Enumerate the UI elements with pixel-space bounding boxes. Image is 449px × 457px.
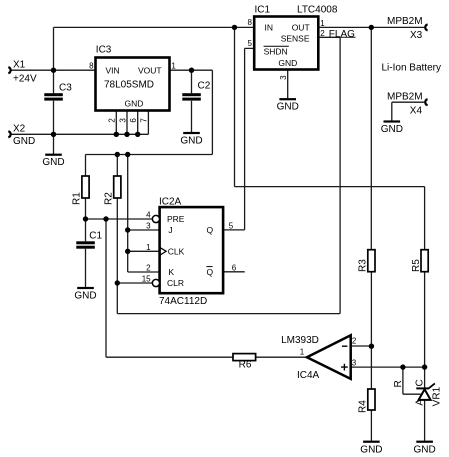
svg-text:IN: IN: [265, 23, 274, 33]
svg-text:IC2A: IC2A: [159, 197, 182, 208]
svg-text:GND: GND: [277, 102, 299, 113]
svg-text:R6: R6: [239, 360, 252, 371]
ground VR1: [414, 441, 436, 456]
shunt regulator VR1: [393, 379, 443, 406]
node R1/C1/PRE: [83, 216, 88, 221]
connector X2: [8, 131, 10, 137]
svg-text:1: 1: [300, 347, 305, 356]
connector X4: [425, 99, 427, 105]
svg-text:R4: R4: [358, 400, 369, 413]
capacitor C1: [76, 231, 102, 249]
wire IC3 bottom pins 2 3 6 7: [116, 111, 148, 135]
svg-text:C: C: [414, 379, 425, 386]
IC3 voltage regulator box: [89, 45, 176, 123]
svg-text:GND: GND: [74, 291, 96, 302]
svg-text:5: 5: [248, 39, 253, 48]
node PRE/R6 branch: [103, 216, 108, 221]
svg-text:GND: GND: [180, 136, 202, 147]
wire Qbar stub: [223, 271, 245, 273]
capacitor C2: [182, 81, 210, 101]
svg-text:A: A: [414, 399, 425, 406]
svg-text:1: 1: [146, 243, 151, 252]
svg-text:3: 3: [279, 75, 288, 80]
node R5/VR1 cathode: [422, 364, 427, 369]
svg-text:2: 2: [352, 337, 357, 346]
resistor R6: [233, 354, 256, 371]
wire VR1 cathode lead: [424, 367, 426, 388]
svg-text:MPB2M: MPB2M: [387, 92, 423, 103]
svg-text:OUT: OUT: [292, 23, 310, 33]
svg-text:Q: Q: [207, 267, 214, 277]
wire C3 leads: [53, 70, 55, 134]
svg-text:X1: X1: [13, 59, 26, 70]
node JCK vertical top: [125, 152, 130, 157]
node CLK: [125, 249, 130, 254]
svg-text:2: 2: [108, 118, 117, 123]
svg-text:Q: Q: [207, 225, 214, 235]
zener triangle: [419, 389, 431, 400]
wire +24V branch down to R5: [235, 27, 425, 249]
svg-text:J: J: [168, 225, 172, 235]
svg-text:X3: X3: [410, 30, 423, 41]
node pin6 gnd: [135, 132, 140, 137]
node J: [125, 227, 130, 232]
IC1 LTC4008 box: [248, 5, 338, 80]
wire VR1 ref lead: [403, 367, 421, 394]
svg-text:GND: GND: [360, 444, 382, 455]
svg-text:IC1: IC1: [255, 5, 271, 16]
svg-text:8: 8: [89, 62, 94, 71]
svg-text:R5: R5: [411, 259, 422, 272]
svg-text:6: 6: [232, 263, 237, 272]
svg-text:GND: GND: [42, 157, 64, 168]
svg-text:5: 5: [229, 221, 234, 230]
node pin2 gnd: [114, 132, 119, 137]
wire C1 leads: [85, 219, 87, 287]
inversion bubble PRE: [152, 215, 159, 222]
svg-text:GND: GND: [381, 124, 403, 135]
wire IC1 GND pin3: [287, 70, 289, 99]
wire X4 to GND: [392, 102, 425, 120]
node R2 top: [115, 152, 120, 157]
wire R2 bottom CLR FLAG net: [117, 37, 340, 313]
svg-text:6: 6: [129, 118, 138, 123]
plus input mark: [341, 364, 348, 371]
svg-text:GND: GND: [414, 444, 436, 455]
svg-text:R1: R1: [72, 192, 83, 205]
wire PRE branch down to R6 to comparator: [106, 219, 307, 357]
node +24V/R5 branch: [232, 25, 237, 30]
svg-text:4: 4: [146, 211, 151, 220]
resistor R4: [358, 389, 375, 413]
wire R5 bottom: [424, 272, 426, 367]
wire battery down to R3: [370, 27, 372, 249]
svg-text:C2: C2: [198, 81, 211, 92]
resistor R3: [358, 250, 375, 272]
cathode diagonal tail: [428, 383, 435, 389]
svg-text:MPB2M: MPB2M: [387, 16, 423, 27]
ground C2: [180, 132, 202, 147]
capacitor C3: [44, 82, 72, 100]
node C2 junction: [189, 68, 194, 73]
inversion bubble CLR: [152, 279, 159, 286]
ground X4: [381, 120, 403, 135]
wire VOUT 5V rail: [86, 70, 213, 176]
wire Q to SHDN: [223, 48, 254, 230]
svg-text:X4: X4: [410, 105, 423, 116]
svg-text:1: 1: [171, 62, 176, 71]
connector X1: [8, 67, 10, 73]
svg-text:LM393D: LM393D: [281, 335, 319, 346]
svg-text:C3: C3: [59, 82, 72, 93]
svg-text:+24V: +24V: [13, 74, 37, 85]
svg-text:8: 8: [248, 18, 253, 27]
wire FLAG label strikethrough: [340, 36, 355, 38]
wire R2 top lead: [116, 155, 118, 177]
wire plus input line: [351, 366, 425, 368]
resistor R5: [411, 250, 428, 272]
svg-text:VOUT: VOUT: [138, 65, 162, 75]
wire X2 GND line: [11, 133, 148, 135]
node X1/C3 junction: [51, 68, 56, 73]
svg-text:3: 3: [146, 221, 151, 230]
svg-text:3: 3: [118, 118, 127, 123]
IC2A flip-flop box: [142, 197, 237, 308]
resistor R2: [103, 176, 121, 205]
op-amp IC4A LM393D: [281, 335, 357, 381]
node R3/minus input: [369, 344, 374, 349]
wire OUT to X3 battery: [318, 26, 425, 28]
wire J CLK K vertical: [128, 155, 160, 273]
wire R1 bottom to PRE: [86, 198, 153, 219]
svg-text:74AC112D: 74AC112D: [159, 296, 207, 307]
wire R4 bottom to GND: [370, 410, 372, 441]
clock triangle: [160, 247, 167, 255]
ground X2: [42, 154, 64, 169]
svg-text:15: 15: [142, 275, 151, 284]
svg-text:78L05SMD: 78L05SMD: [104, 80, 154, 91]
svg-text:CLR: CLR: [167, 278, 184, 288]
svg-text:FLAG: FLAG: [329, 29, 355, 40]
svg-text:X2: X2: [13, 123, 26, 134]
wire X2 gnd drop: [53, 134, 55, 154]
node VR1 ref branch: [400, 364, 405, 369]
svg-text:SENSE: SENSE: [281, 34, 310, 44]
svg-text:2: 2: [320, 29, 325, 38]
svg-text:IC4A: IC4A: [297, 370, 320, 381]
svg-text:K: K: [168, 267, 174, 277]
svg-text:2: 2: [146, 264, 151, 273]
resistor R1: [72, 176, 90, 205]
svg-text:LTC4008: LTC4008: [297, 5, 338, 16]
svg-text:IC3: IC3: [96, 45, 112, 56]
wire R3 bottom to minus input and R4: [351, 272, 371, 389]
wire +24V up and over to IC1 IN: [54, 27, 255, 70]
svg-text:Li-Ion Battery: Li-Ion Battery: [382, 62, 441, 73]
svg-text:7: 7: [140, 118, 149, 123]
svg-text:R: R: [393, 380, 404, 387]
svg-text:1: 1: [320, 19, 325, 28]
wire VR1 anode to GND: [424, 400, 426, 441]
svg-text:VR1: VR1: [432, 386, 443, 406]
svg-text:C1: C1: [89, 231, 102, 242]
svg-text:R3: R3: [358, 259, 369, 272]
svg-text:R2: R2: [103, 192, 114, 205]
svg-text:PRE: PRE: [167, 214, 185, 224]
svg-text:SHDN: SHDN: [264, 46, 288, 56]
ground C1: [74, 287, 96, 302]
svg-text:CLK: CLK: [168, 246, 185, 256]
svg-text:3: 3: [352, 358, 357, 367]
node battery/R3 branch: [369, 25, 374, 30]
svg-text:VIN: VIN: [106, 65, 120, 75]
minus input mark: [342, 345, 348, 347]
svg-text:GND: GND: [13, 136, 35, 147]
cathode bar: [416, 387, 428, 389]
ground IC1 pin3: [277, 98, 299, 113]
wire C2 leads: [191, 70, 193, 132]
wire +24V X1 to IC3 VIN: [11, 69, 96, 71]
connector X3: [425, 24, 427, 30]
svg-text:GND: GND: [125, 98, 144, 108]
node CLR: [115, 280, 120, 285]
node pin3 gnd: [124, 132, 129, 137]
node X2/C3/GND junction: [51, 132, 56, 137]
svg-text:GND: GND: [278, 58, 297, 68]
ground R4: [360, 441, 382, 456]
